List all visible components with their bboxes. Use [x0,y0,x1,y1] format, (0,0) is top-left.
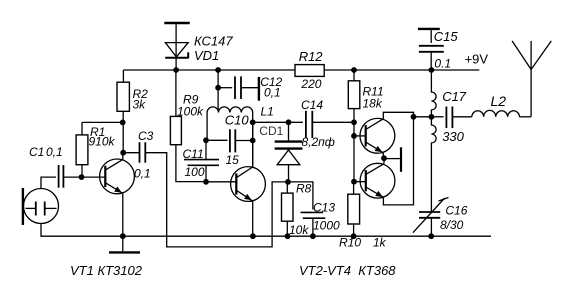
label R12 [299,49,324,91]
coupling bar (capacitor plate) at cascade node [384,147,401,172]
node C16 bottom on rail [428,233,434,239]
resistor R1 [76,122,88,177]
wire VT4 emitter feedback [383,117,413,205]
wire audio route C3 to varicap [145,153,286,247]
node varicap junction top [286,119,292,125]
capacitor C13 [301,212,326,236]
svg-text:VT1 КТ3102: VT1 КТ3102 [70,263,143,278]
capacitor C3 [140,142,146,162]
svg-text:+9V: +9V [465,52,489,67]
svg-text:C10: C10 [225,113,250,128]
microphone BM1 body [23,188,59,225]
label C3 [134,129,154,181]
wire VT1 emitter to ground [122,194,124,237]
label +9V [465,52,489,67]
resistor R9 [170,70,203,182]
svg-text:330: 330 [442,129,464,144]
wire VT3 base [354,135,366,137]
svg-text:0,1: 0,1 [134,167,151,181]
resistor R10 [348,182,360,237]
node feedback top [411,114,417,120]
wire VT3 emitter to node [382,153,384,158]
capacitor C11 [184,140,219,182]
wire C12 branch from rail [217,70,219,110]
svg-text:C13: C13 [313,201,335,215]
wire VT4 base [354,181,366,183]
label VT2-VT4 type [299,263,396,278]
wire C3 left lead [123,152,139,154]
svg-text:0,1: 0,1 [264,86,281,100]
node VT3 base junction [351,133,357,139]
capacitor C1 [59,165,64,188]
node R11 mid wire [351,119,357,125]
wire mic bottom to ground rail [40,224,42,237]
wire L2 to antenna [520,116,532,118]
svg-text:18k: 18k [363,97,383,111]
svg-text:100: 100 [185,165,205,179]
svg-text:R12: R12 [299,49,324,64]
wire R1 top to R2 line [82,121,123,123]
label C13 [313,201,340,233]
inductor L1 [207,107,253,167]
svg-text:C11: C11 [183,147,204,161]
node R10 bottom on rail [351,233,357,239]
label VD1 [194,34,233,63]
label R11 [363,85,384,111]
wire C11 to VT2 base [206,181,236,183]
svg-text:L1: L1 [261,105,274,119]
node base VT1 junction [79,174,85,180]
svg-text:VT2-VT4 КТ368: VT2-VT4 КТ368 [299,263,396,278]
node VT1 collector junction [120,150,126,156]
capacitor C15 [419,30,444,70]
svg-text:0,1: 0,1 [46,145,63,159]
wire VT3 collector [383,112,413,119]
transistor VT2 [231,167,266,202]
node VD1 on rail [173,67,179,73]
svg-text:R10: R10 [339,236,361,250]
inductor L2 [472,110,520,116]
label L1 [261,105,274,119]
varicap CD1 [275,122,303,182]
resistor R8 [282,182,294,236]
wire C14 to R11 line [312,121,354,123]
capacitor C12 [218,76,259,100]
node tank tap [429,114,435,120]
node C15 tank on rail [429,67,435,73]
capacitor C16 (variable) [413,198,449,237]
node C11 bottom [203,179,209,185]
label R9 [177,93,204,119]
capacitor C10 [206,129,253,152]
resistor R12 [295,65,324,77]
label C10 [225,113,250,168]
node R8 bottom on rail [285,233,291,239]
svg-text:CD1: CD1 [259,124,283,138]
wire VT2 collector [252,122,254,167]
wire varicap junction to C13 [289,182,313,210]
svg-text:15: 15 [226,153,240,167]
svg-text:C14: C14 [301,98,323,112]
wire C1 to VT1 base [64,176,106,178]
node C13 bottom on rail [310,233,316,239]
label CD1 [259,124,283,138]
node C10 right [250,138,256,144]
svg-text:C15: C15 [434,29,459,44]
inductor tank coil [431,70,436,212]
svg-text:1000: 1000 [313,219,340,233]
svg-text:C17: C17 [442,89,467,104]
antenna WA1 [512,41,551,117]
wire mid (VT2 collector to C14) [253,121,303,123]
ground symbol [109,236,140,252]
label C11 [183,147,205,179]
svg-text:C16: C16 [445,204,467,218]
svg-text:100k: 100k [177,105,204,119]
svg-text:VD1: VD1 [194,48,219,63]
label C1 [29,145,63,159]
wire ground rail (bottom) [41,235,491,237]
svg-text:C1: C1 [29,145,44,159]
wire VT2 emitter to ground [252,201,254,236]
label R2 [133,87,149,112]
svg-text:0.1: 0.1 [434,57,451,71]
label R8 [289,182,312,238]
zener diode VD1 [165,24,188,70]
label C12 [260,75,282,100]
label C15 [434,29,459,71]
svg-text:C3: C3 [138,129,154,143]
svg-text:1k: 1k [373,236,387,250]
svg-text:R8: R8 [296,182,312,196]
svg-text:910k: 910k [89,135,116,149]
resistor R2 [117,70,129,153]
svg-text:8/30: 8/30 [440,218,464,232]
wire feedback node to tank coil [414,116,432,118]
node C12 branch on rail [215,67,221,73]
svg-text:10k: 10k [289,223,309,237]
label VT1 type [70,263,143,278]
svg-text:КС147: КС147 [194,34,233,49]
transistor VT4 [360,163,395,198]
node C12 junction [215,85,221,91]
capacitor C17 [431,107,471,129]
node L1 left / C11 top [203,137,209,143]
transistor VT3 [360,118,395,153]
label R1 [89,125,116,149]
label C16 [440,204,468,232]
label L2 [491,93,507,109]
svg-text:8,2пф: 8,2пф [302,135,335,149]
wire +9V rail (top, right of R12) [324,69,479,71]
label C17 [442,89,467,144]
svg-text:L2: L2 [491,93,507,109]
node L1 right on mid wire [250,119,256,125]
node R1/R2 junction [120,120,126,126]
capacitor C14 [306,111,312,138]
node varicap bottom junction [285,179,291,185]
ground bar above VD1 [164,22,190,24]
wire +U stabilized rail (top, left of R12) [123,69,295,71]
label R10 [339,236,387,250]
node R11 on rail [351,67,357,73]
wire VT4 collector to node [383,158,385,163]
transistor VT1 [100,159,135,194]
wire VT1 collector [122,153,124,160]
label C14 [301,98,335,149]
node VT3/VT4 cascade [381,155,387,161]
node VT4 base junction [351,179,357,185]
node VT2 emitter on rail [250,233,256,239]
svg-text:3k: 3k [133,98,147,112]
resistor R11 [348,70,360,182]
svg-text:220: 220 [300,77,321,91]
wire mic top to C1 [41,177,56,188]
ground bar above C15 [418,28,440,30]
node VT1 emitter on rail [120,233,126,239]
